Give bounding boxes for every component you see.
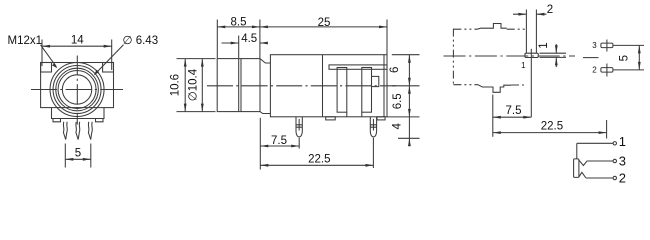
pin 2 side profile <box>601 68 613 73</box>
svg-text:7.5: 7.5 <box>271 135 287 147</box>
dim 4.5 extension <box>238 36 240 59</box>
terminal circle 1 <box>613 142 616 145</box>
bottom tab, side view <box>326 117 336 120</box>
centerline horizontal, side view <box>207 85 396 87</box>
svg-text:6.5: 6.5 <box>392 93 404 109</box>
dim 7.5 extension, rear view <box>492 95 494 137</box>
bushing circle M12 <box>50 63 104 117</box>
centerline horizontal, rear view <box>444 55 576 57</box>
svg-text:3: 3 <box>619 154 626 169</box>
svg-text:8.5: 8.5 <box>231 16 247 28</box>
svg-text:4: 4 <box>392 123 404 130</box>
jack hole circle 6.43 <box>62 75 91 104</box>
pin 2 centerline <box>606 64 608 77</box>
svg-text:M12x1: M12x1 <box>8 35 43 47</box>
dim 5 line <box>638 45 640 70</box>
bushing inner circle <box>58 71 96 109</box>
dim 10.6 ticks <box>177 59 216 112</box>
pin rear, side view <box>370 117 376 137</box>
centerline vertical, front view <box>76 56 78 125</box>
pin 1 side profile <box>525 53 538 57</box>
phantom outline left edge <box>452 29 454 85</box>
svg-text:3: 3 <box>592 41 597 50</box>
pin front, side view <box>296 117 302 137</box>
svg-text:10.6: 10.6 <box>170 74 182 96</box>
pin rear crimp marks <box>370 119 376 131</box>
thread runout line 1 <box>238 59 240 112</box>
body square, front view <box>41 63 114 108</box>
dim 6/6.5/4 ticks <box>387 55 420 139</box>
pin rear dropline <box>372 138 374 168</box>
dim 4.5 line right <box>260 42 267 44</box>
top tab, rear view <box>477 24 507 30</box>
phantom outline bottom right <box>511 84 526 86</box>
dim 8.5/25 line <box>217 26 387 28</box>
bottom tab, rear view <box>478 85 511 93</box>
svg-text:4.5: 4.5 <box>241 33 257 45</box>
terminal circle 2 <box>613 176 616 179</box>
dim 22.5 line, side view <box>260 164 373 166</box>
svg-text:6: 6 <box>389 67 401 73</box>
svg-text:∅10.4: ∅10.4 <box>188 68 200 101</box>
housing top slot <box>329 65 387 69</box>
sleeve contact <box>574 159 579 178</box>
dim dia 10.4 line <box>201 59 203 112</box>
wire pin 1 drop <box>576 143 578 159</box>
dim 1 line <box>555 44 557 67</box>
ring contact switch <box>579 172 586 177</box>
terminal circle 3 <box>613 159 616 162</box>
wire pin 2 <box>586 177 613 179</box>
dim 1 ticks <box>540 53 567 57</box>
pin 3 side profile <box>601 43 613 48</box>
bottom flange, front view <box>52 108 105 119</box>
dim 22.5 right extension, rear view <box>606 120 608 139</box>
dim 2 line <box>513 13 547 15</box>
collar, side view <box>260 59 270 114</box>
leader dia 6.43 <box>95 45 123 74</box>
panel face line 2 <box>535 10 537 54</box>
contact boss <box>372 76 379 86</box>
pin 3 centerline <box>606 40 608 52</box>
contact slot 2 <box>362 68 372 113</box>
pin front crimp marks <box>296 119 302 131</box>
svg-text:2: 2 <box>592 66 597 75</box>
tip contact switch <box>579 160 587 165</box>
bushing step circle <box>56 68 99 111</box>
flange foot left <box>53 119 61 122</box>
dim 7.5 line, side view <box>260 145 299 147</box>
bottom step right, side view <box>377 117 385 120</box>
thread circle <box>53 66 101 114</box>
contact slot 1 <box>337 68 347 113</box>
pin 1 dropline <box>530 53 532 117</box>
wire pin 1 <box>577 142 613 144</box>
bushing, side view <box>217 59 260 112</box>
phantom outline top <box>453 28 477 30</box>
dim 8.5/25 extension lines <box>217 20 387 59</box>
housing body, side view <box>270 55 387 117</box>
svg-text:2: 2 <box>547 4 553 16</box>
dim 5 extension left <box>64 144 66 168</box>
solder lug right <box>88 122 92 140</box>
dim 22.5 line, rear view <box>493 132 607 134</box>
solder lug left <box>63 122 67 140</box>
centerline horizontal, front view <box>31 89 123 91</box>
solder lug middle <box>76 122 80 140</box>
svg-text:14: 14 <box>71 35 84 47</box>
svg-text:∅ 6.43: ∅ 6.43 <box>123 35 159 47</box>
dim 5 line <box>65 158 91 160</box>
corner block top-right <box>103 63 114 73</box>
centerline pins 3-2 <box>583 57 599 59</box>
svg-text:25: 25 <box>318 17 331 29</box>
dim 6/6.5/4 line <box>408 55 410 145</box>
dim 4.5 line left <box>222 42 239 44</box>
dim 14 extension left <box>41 40 43 67</box>
thread runout line 2 <box>240 59 242 112</box>
dim 7.5/22.5 extension, side view <box>259 118 261 170</box>
wire pin 3 <box>587 160 613 162</box>
dim 5 ticks <box>614 45 645 70</box>
phantom outline bottom <box>453 84 478 86</box>
housing internal wall <box>322 55 324 117</box>
svg-text:5: 5 <box>75 147 81 159</box>
phantom outline top right <box>507 28 527 30</box>
dim 14 extension right <box>111 40 113 71</box>
svg-text:1: 1 <box>521 61 526 70</box>
svg-text:5: 5 <box>619 55 631 61</box>
svg-text:22.5: 22.5 <box>541 120 563 132</box>
leader M12x1 <box>41 45 57 67</box>
dim 7.5 line, rear view <box>493 116 532 118</box>
pin 1 centerline <box>530 49 532 53</box>
dim 5 extension right <box>90 144 92 168</box>
dim 14 line <box>42 45 112 47</box>
corner block top-left <box>41 63 52 73</box>
svg-text:22.5: 22.5 <box>308 153 330 165</box>
panel face line 1 <box>525 10 527 54</box>
svg-text:1: 1 <box>619 134 626 149</box>
svg-text:2: 2 <box>619 170 626 185</box>
svg-text:1: 1 <box>538 42 550 48</box>
dim 10.6 line <box>184 59 186 112</box>
pin front dropline <box>298 138 300 149</box>
housing inner right wall <box>383 55 385 117</box>
svg-text:7.5: 7.5 <box>506 105 522 117</box>
flange foot right <box>96 119 104 122</box>
